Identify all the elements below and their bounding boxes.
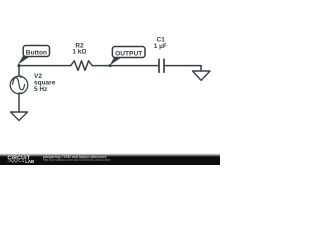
svg-text:5 Hz: 5 Hz [34,86,48,93]
svg-text:1 µF: 1 µF [154,43,167,50]
svg-text:1 kΩ: 1 kΩ [72,49,86,56]
svg-text:LAB: LAB [25,159,34,164]
svg-text:OUTPUT: OUTPUT [115,50,142,57]
svg-text:Button: Button [26,49,47,56]
svg-text:http://circuitlab.com/c/abc925: http://circuitlab.com/c/abc9256/5190-and… [43,158,111,162]
